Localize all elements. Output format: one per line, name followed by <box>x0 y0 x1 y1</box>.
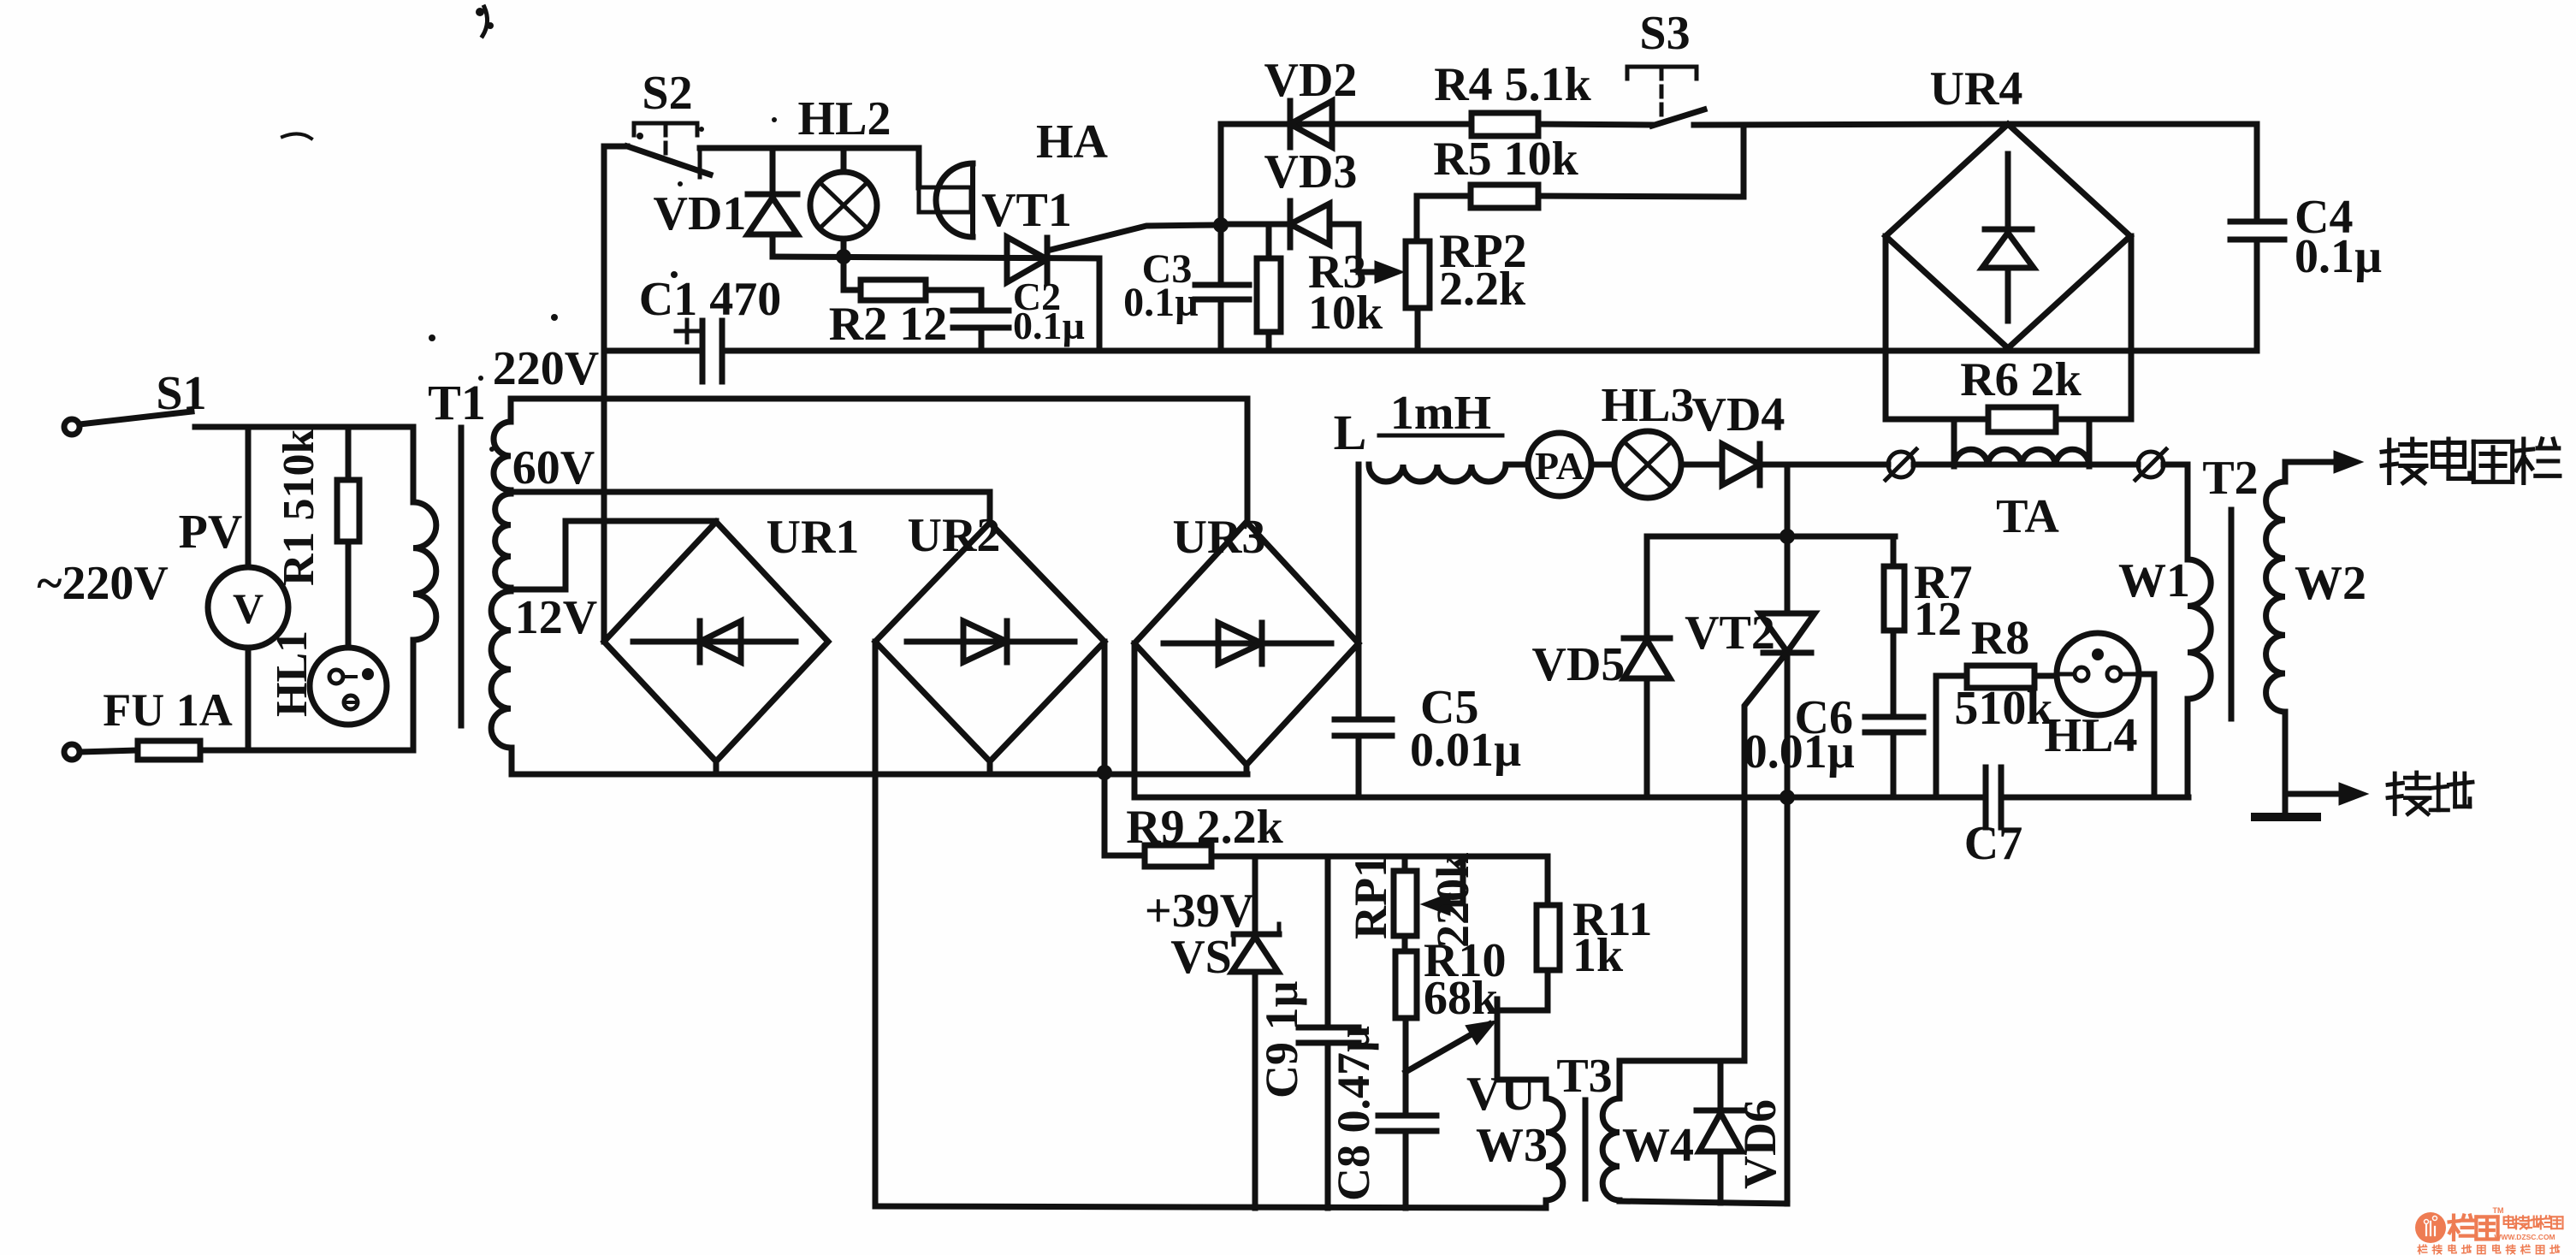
svg-text:UR2: UR2 <box>908 509 1001 562</box>
svg-text:TA: TA <box>1996 490 2059 543</box>
svg-text:WWW.DZSC.COM: WWW.DZSC.COM <box>2494 1233 2555 1241</box>
svg-text:VS: VS <box>1170 931 1232 984</box>
svg-text:L: L <box>1334 405 1367 460</box>
svg-text:60V: 60V <box>512 441 595 494</box>
svg-text:510k: 510k <box>1954 682 2053 735</box>
svg-text:V: V <box>233 584 264 632</box>
svg-text:VD5: VD5 <box>1532 638 1626 691</box>
svg-text:0.1µ: 0.1µ <box>1013 304 1085 347</box>
svg-text:T1: T1 <box>428 375 486 430</box>
svg-text:1k: 1k <box>1572 929 1624 982</box>
svg-text:R1 510k: R1 510k <box>275 429 323 586</box>
svg-text:0.1µ: 0.1µ <box>1123 280 1199 325</box>
svg-text:HL1: HL1 <box>268 630 317 717</box>
svg-text:VD2: VD2 <box>1264 54 1358 107</box>
svg-text:2.2k: 2.2k <box>1439 263 1526 316</box>
svg-text:R4 5.1k: R4 5.1k <box>1434 58 1591 111</box>
svg-text:VD1: VD1 <box>654 187 747 240</box>
svg-text:+39V: +39V <box>1145 885 1254 938</box>
svg-text:PA: PA <box>1535 444 1584 488</box>
svg-text:C9 1µ: C9 1µ <box>1256 980 1307 1098</box>
svg-text:0.01µ: 0.01µ <box>1410 724 1521 777</box>
svg-text:VD3: VD3 <box>1264 145 1358 198</box>
svg-text:C1 470: C1 470 <box>639 273 781 326</box>
svg-text:UR3: UR3 <box>1173 511 1266 564</box>
svg-text:R9 2.2k: R9 2.2k <box>1126 801 1283 854</box>
svg-text:C7: C7 <box>1964 817 2022 870</box>
svg-text:12: 12 <box>1914 593 1962 646</box>
svg-text:VT1: VT1 <box>981 184 1072 237</box>
svg-text:R2 12: R2 12 <box>829 298 947 351</box>
svg-text:0.1µ: 0.1µ <box>2295 230 2382 283</box>
svg-text:HL3: HL3 <box>1602 379 1695 432</box>
svg-text:220V: 220V <box>493 342 599 395</box>
svg-text:HA: HA <box>1036 115 1109 169</box>
svg-text:VT2: VT2 <box>1685 607 1775 660</box>
svg-text:T3: T3 <box>1556 1050 1612 1103</box>
svg-text:12V: 12V <box>515 591 597 644</box>
svg-text:VD6: VD6 <box>1734 1099 1785 1189</box>
svg-text:UR4: UR4 <box>1930 62 2023 115</box>
svg-text:S1: S1 <box>156 367 206 420</box>
svg-text:C8 0.47µ: C8 0.47µ <box>1328 1026 1379 1201</box>
svg-text:W1: W1 <box>2118 554 2190 607</box>
svg-text:S2: S2 <box>642 67 692 120</box>
svg-text:VU: VU <box>1466 1068 1536 1121</box>
svg-text:PV: PV <box>179 506 243 559</box>
svg-text:R8: R8 <box>1971 612 2029 665</box>
svg-text:HL2: HL2 <box>798 92 891 145</box>
svg-text:R5 10k: R5 10k <box>1433 133 1578 186</box>
svg-text:68k: 68k <box>1424 972 1499 1025</box>
svg-text:1mH: 1mH <box>1390 387 1491 440</box>
svg-text:W4: W4 <box>1622 1119 1694 1172</box>
svg-text:~220V: ~220V <box>37 557 169 610</box>
svg-text:S3: S3 <box>1639 7 1690 60</box>
svg-text:TM: TM <box>2493 1206 2504 1215</box>
svg-text:FU 1A: FU 1A <box>103 684 232 736</box>
svg-text:0.01µ: 0.01µ <box>1744 725 1855 778</box>
svg-text:VD4: VD4 <box>1692 388 1785 441</box>
svg-text:HL4: HL4 <box>2045 709 2138 762</box>
svg-text:10k: 10k <box>1308 287 1383 340</box>
svg-text:R6 2k: R6 2k <box>1960 353 2082 406</box>
svg-text:UR1: UR1 <box>767 511 860 564</box>
svg-text:RP1: RP1 <box>1345 855 1396 939</box>
svg-text:T2: T2 <box>2202 452 2258 505</box>
svg-text:W2: W2 <box>2295 557 2366 610</box>
svg-text:W3: W3 <box>1476 1119 1548 1172</box>
